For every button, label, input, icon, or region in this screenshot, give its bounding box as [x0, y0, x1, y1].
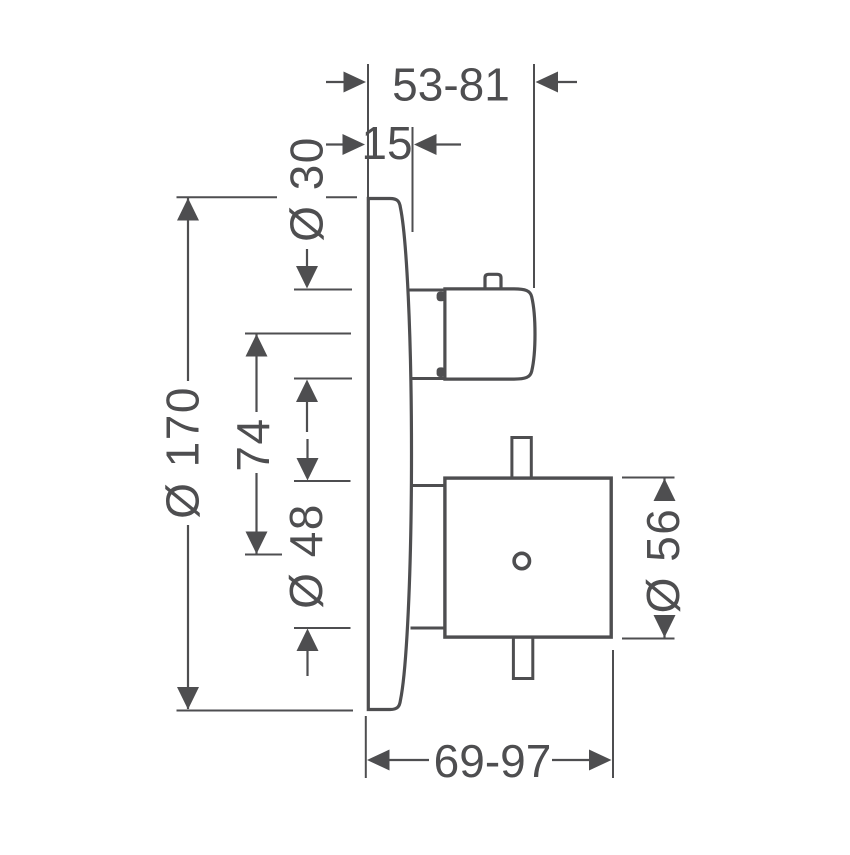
- svg-text:15: 15: [361, 117, 412, 169]
- handle sleeve bottom edge: [410, 377, 445, 380]
- extension line: plate front (15 right): [412, 127, 414, 232]
- tick: handle top (Ø30): [294, 289, 352, 291]
- tick: valve sleeve top (Ø48): [294, 480, 351, 482]
- extension line: valve face (69-97 right): [612, 650, 614, 778]
- svg-text:Ø 48: Ø 48: [280, 503, 332, 609]
- arrow tail Ø30 upper: [306, 249, 308, 267]
- arrow Ø30 lower (up): [296, 380, 318, 403]
- extension line: wall plane / plate left edge (53-81, 15 dims): [367, 64, 369, 197]
- dimension tail 15 right: [435, 143, 461, 145]
- arrow Ø56 top (up): [654, 479, 676, 502]
- dimension tail 53-81 right: [556, 81, 577, 83]
- arrow 53-81 right (left-pointing): [536, 72, 559, 93]
- arrow Ø48 lower (up): [297, 629, 319, 652]
- svg-text:53-81: 53-81: [392, 59, 510, 111]
- text halo Ø56: [641, 495, 686, 624]
- tick: valve bottom (Ø56): [622, 638, 675, 640]
- tick: plate top (Ø170): [177, 196, 358, 198]
- text halo 74: [230, 412, 275, 473]
- dimension tail 53-81 left: [326, 81, 345, 83]
- tick: handle axis (74 top): [245, 333, 351, 335]
- tick: valve sleeve bottom (Ø48): [294, 627, 351, 629]
- valve top pin: [512, 438, 531, 482]
- escutcheon plate (side profile): [368, 199, 411, 710]
- arrow Ø56 bottom (down): [654, 615, 676, 638]
- text halo Ø30: [277, 130, 326, 252]
- valve body box: [445, 478, 611, 637]
- arrow tail Ø48 lower: [306, 650, 308, 676]
- arrow 69-97 right (right-pointing): [589, 750, 612, 771]
- arrow Ø30 upper (down): [296, 266, 318, 289]
- svg-text:Ø 30: Ø 30: [281, 136, 333, 242]
- tick: valve axis (74 bottom): [245, 554, 282, 556]
- valve sleeve bottom edge: [411, 627, 448, 630]
- arrow Ø170 top: [177, 198, 199, 221]
- tick: plate bottom (Ø170): [177, 710, 354, 712]
- arrow Ø48 upper (down): [297, 458, 319, 481]
- handle sleeve top edge: [410, 289, 445, 292]
- arrow 53-81 left (right-pointing): [344, 72, 367, 93]
- tick: valve top (Ø56): [622, 477, 675, 479]
- svg-text:Ø 56: Ø 56: [637, 508, 689, 614]
- text halo Ø170: [159, 381, 204, 525]
- arrow Ø170 bottom: [177, 687, 199, 710]
- svg-text:Ø 170: Ø 170: [157, 386, 209, 519]
- arrow 69-97 left (left-pointing): [367, 750, 390, 771]
- tick: handle bottom (Ø30): [294, 378, 352, 380]
- extension line: handle face (53-81 right): [533, 64, 535, 288]
- dimension line Ø56: [663, 478, 665, 638]
- extension line: plate bottom (69-97 left): [365, 716, 367, 778]
- dimension line 74: [255, 334, 257, 554]
- dimension tail 15 left: [323, 143, 344, 145]
- text halo Ø48: [283, 495, 328, 617]
- dimension line 69-97 right segment: [552, 759, 590, 761]
- valve center screw dot: [514, 553, 529, 568]
- arrow 74 top: [246, 334, 268, 357]
- sleeve nub bottom: [437, 367, 446, 377]
- arrow 74 bottom: [246, 532, 268, 555]
- arrow tail Ø48 upper: [306, 439, 308, 459]
- dimension line Ø170: [187, 198, 189, 709]
- svg-text:74: 74: [227, 417, 279, 471]
- arrow tail Ø30 lower: [306, 401, 308, 432]
- valve bottom pin: [513, 634, 532, 679]
- arrow 15 right (left-pointing): [414, 134, 437, 155]
- dimension line 69-97 left segment: [389, 759, 429, 761]
- handle knob: [485, 274, 501, 291]
- svg-text:69-97: 69-97: [434, 735, 552, 787]
- sleeve nub top: [437, 292, 446, 302]
- thermostat handle body: [445, 289, 535, 379]
- valve sleeve top edge: [411, 484, 448, 487]
- arrow 15 left (right-pointing): [343, 134, 366, 155]
